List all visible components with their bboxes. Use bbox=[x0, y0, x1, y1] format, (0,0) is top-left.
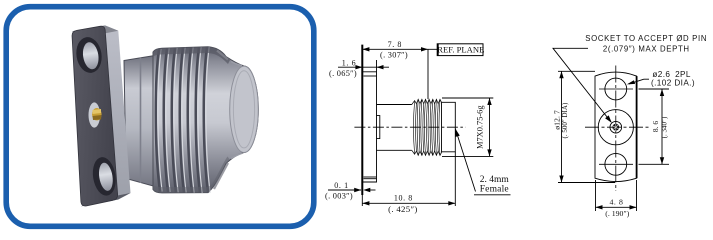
flange right edge thick bbox=[636, 76, 638, 178]
svg-text:(. 307″): (. 307″) bbox=[380, 50, 408, 59]
flange front face (thick) bbox=[361, 45, 363, 195]
thread crest zigzag bottom bbox=[412, 150, 442, 155]
body cylinder outline bbox=[377, 104, 412, 106]
dimension 0.1 gasket bbox=[328, 189, 376, 191]
dimension 8.6 hole spacing bbox=[639, 89, 670, 164]
top mounting hole front view bbox=[605, 78, 627, 100]
svg-text:10. 8: 10. 8 bbox=[394, 194, 413, 203]
centerline of side view bbox=[354, 126, 465, 128]
svg-text:M7X0.75-6g: M7X0.75-6g bbox=[475, 105, 484, 149]
top mounting hole bbox=[74, 35, 104, 74]
dimension 1.6 flange thickness bbox=[338, 66, 389, 68]
svg-text:1. 6: 1. 6 bbox=[342, 59, 356, 68]
coupling nut body bbox=[153, 47, 258, 193]
interface outer circle bbox=[610, 121, 622, 133]
svg-text:7. 8: 7. 8 bbox=[388, 40, 402, 49]
bottom hole centerline bbox=[599, 163, 633, 165]
svg-text:REF. PLANE: REF. PLANE bbox=[437, 45, 484, 55]
thread flank lines bbox=[414, 99, 440, 155]
svg-text:(. 425″): (. 425″) bbox=[388, 204, 418, 214]
nut top shading band bbox=[153, 47, 230, 64]
leader 2.4mm Female bbox=[455, 129, 510, 195]
svg-text:(. 065″): (. 065″) bbox=[329, 69, 357, 78]
svg-text:SOCKET TO ACCEPT ØD PIN: SOCKET TO ACCEPT ØD PIN bbox=[585, 34, 707, 43]
step shadow before end face bbox=[214, 51, 228, 190]
svg-text:Female: Female bbox=[480, 185, 509, 195]
nut bottom shading band bbox=[153, 157, 230, 193]
svg-text:0. 1: 0. 1 bbox=[334, 181, 348, 190]
flange outline bbox=[362, 72, 376, 182]
bottom mounting hole front view bbox=[605, 153, 627, 175]
dimension 10.8 overall length bbox=[362, 202, 455, 204]
dimension 4.8 flange width bbox=[596, 180, 637, 211]
flange chamfer lines top bbox=[364, 75, 377, 77]
leader SOCKET TO ACCEPT bbox=[553, 48, 611, 122]
REF. PLANE box label bbox=[437, 44, 483, 56]
svg-text:2. 4mm: 2. 4mm bbox=[480, 175, 510, 185]
svg-text:(. 340″): (. 340″) bbox=[660, 116, 668, 138]
nose right edge extension down for 10.8 dim bbox=[454, 152, 456, 206]
svg-text:(. 190″): (. 190″) bbox=[605, 209, 629, 218]
svg-text:(.102 DIA.): (.102 DIA.) bbox=[651, 79, 695, 88]
svg-text:4. 8: 4. 8 bbox=[609, 198, 623, 207]
dimension diameter 12.7 flange length bbox=[558, 71, 615, 182]
flange plate front face bbox=[72, 26, 118, 206]
flange plate side face bbox=[105, 25, 131, 199]
socket center filled bbox=[612, 124, 619, 131]
3D render of 2.4mm female flange connector bbox=[72, 25, 259, 206]
svg-text:(. 500″ DIA): (. 500″ DIA) bbox=[561, 102, 569, 138]
flange plate top face bbox=[72, 25, 119, 37]
flange 0.1 gasket line bbox=[361, 195, 363, 206]
barrel between flange and nut bbox=[124, 56, 155, 187]
dimension 7.8 with REF.PLANE bbox=[362, 49, 437, 99]
top hole centerline bbox=[599, 88, 633, 90]
blue rounded border frame around product photo bbox=[6, 7, 314, 227]
svg-text:(. 003″): (. 003″) bbox=[325, 192, 353, 201]
thread crest zigzag top bbox=[412, 99, 442, 104]
flange chamfer lines bottom bbox=[364, 176, 377, 178]
svg-text:8. 6: 8. 6 bbox=[651, 121, 660, 133]
end face of connector bbox=[230, 66, 259, 152]
connector body circle bbox=[598, 110, 633, 145]
flange outline front view bbox=[595, 72, 637, 181]
horizontal centerline bbox=[585, 126, 651, 128]
knurl grooves on nut bbox=[156, 47, 208, 193]
bottom mounting hole bbox=[90, 155, 118, 197]
leader diameter 2.6 2PL bbox=[629, 79, 649, 84]
thread end boundary bbox=[441, 102, 443, 152]
flange plate bottom face bbox=[81, 193, 131, 206]
vertical centerline bbox=[615, 66, 617, 192]
front interface recess with gold socket contact bbox=[89, 102, 101, 127]
nose section at interface end bbox=[442, 102, 456, 152]
center boss on flange back bbox=[377, 116, 380, 139]
flange back extension up for 1.6 dim bbox=[376, 60, 378, 72]
dimension M7X0.75-6g thread callout bbox=[442, 98, 493, 156]
svg-text:2(.079″) MAX DEPTH: 2(.079″) MAX DEPTH bbox=[603, 44, 690, 53]
